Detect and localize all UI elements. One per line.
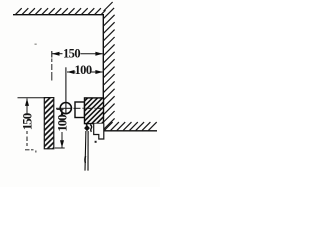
- svg-text:150: 150: [20, 113, 35, 130]
- svg-text:100: 100: [55, 115, 70, 132]
- svg-text:150: 150: [63, 47, 80, 61]
- svg-text:100: 100: [75, 63, 92, 77]
